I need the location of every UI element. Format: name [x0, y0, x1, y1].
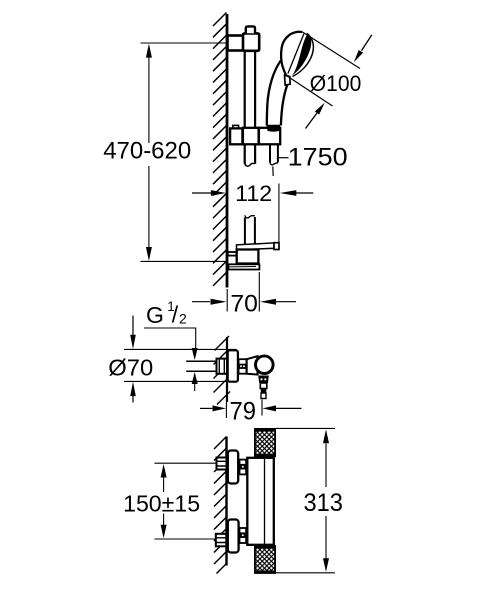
- dim 112 right arrow: [295, 192, 313, 194]
- dim Ø100 upper arrow: [362, 35, 372, 51]
- wall hatching (middle): [214, 336, 231, 405]
- dim 150±15 lower extension line: [155, 538, 216, 540]
- top bracket arm: [228, 36, 244, 51]
- dish arm end cap: [274, 243, 279, 250]
- elbow body: [247, 356, 258, 374]
- svg-text:G: G: [146, 302, 164, 328]
- lower supply hex (behind wall): [216, 534, 227, 547]
- upper union nut: [240, 460, 247, 475]
- slider middle block on rail: [243, 128, 259, 145]
- dim Ø70 lower arrow: [132, 396, 134, 403]
- svg-text:1750: 1750: [288, 143, 348, 171]
- svg-text:2: 2: [179, 310, 187, 326]
- lower bracket wall arm: [228, 252, 237, 256]
- dim Ø100 tangent line A: [303, 32, 361, 69]
- dim 70 left extension line: [226, 289, 228, 312]
- dim 79 left arrow: [200, 407, 212, 409]
- svg-text:313: 313: [303, 489, 343, 517]
- thermostat body: [247, 458, 273, 545]
- dim 150±15 upper extension line: [155, 462, 217, 464]
- rail break (top of lower segment): [245, 215, 255, 218]
- wall hatching (bottom): [214, 437, 227, 574]
- shower head face crescent (dark): [292, 34, 311, 75]
- dim 313 line and arrows: [325, 444, 327, 488]
- svg-text:Ø100: Ø100: [310, 71, 362, 96]
- shower head dome outline: [281, 32, 302, 76]
- svg-text:70: 70: [230, 291, 258, 318]
- dim 470-620 top extension line: [141, 42, 227, 44]
- svg-text:/: /: [172, 302, 179, 328]
- dim Ø70 bottom extension line: [124, 380, 237, 382]
- wall line (middle): [226, 337, 228, 402]
- dim Ø100 tangent line B: [288, 76, 333, 106]
- dim 70 right extension line: [258, 272, 260, 312]
- dim 70 right arrow: [276, 301, 296, 303]
- slider clamp tab: [233, 125, 239, 128]
- lower bracket foot: [228, 264, 259, 269]
- hose centerline stub: [272, 167, 274, 177]
- lower handle (knurled): [255, 546, 275, 573]
- svg-text:150±15: 150±15: [123, 490, 200, 516]
- dim 70 left arrow: [192, 301, 210, 303]
- dim 112 left arrow: [192, 192, 212, 194]
- dim Ø70 upper arrow: [132, 316, 134, 336]
- supply pipe: [186, 361, 216, 371]
- top bracket block: [243, 33, 259, 50]
- slider left clamp: [230, 128, 242, 144]
- union nut (knurled): [239, 359, 247, 374]
- rail tube (upper segment): [245, 51, 255, 164]
- rail tube lower segment: [245, 217, 255, 248]
- dim Ø100 lower arrow: [306, 112, 318, 128]
- dim 79 right arrow: [276, 407, 302, 409]
- body internal line: [264, 458, 266, 545]
- upper supply hex (behind wall): [217, 458, 227, 470]
- dim Ø70 top extension line: [124, 348, 237, 350]
- wall line (top): [226, 14, 229, 288]
- dim 470-620 bottom extension line: [141, 260, 227, 262]
- dim 313 top extension line: [276, 427, 335, 429]
- G1/2 leader line: [144, 328, 196, 349]
- lower escutcheon: [228, 520, 239, 553]
- shower holder (slider right): [259, 128, 280, 145]
- escutcheon (rosette): [228, 350, 238, 381]
- dim 313 bottom extension line: [276, 572, 335, 574]
- lower bracket body: [237, 250, 259, 264]
- outlet nipple: [260, 383, 267, 389]
- hose break: [270, 162, 278, 165]
- dim 79 extension line (outlet center): [261, 400, 263, 416]
- knob on top of bracket: [246, 26, 255, 33]
- G1/2 lower arrow: [192, 372, 198, 384]
- dim line 470-620 with arrows: [148, 56, 150, 249]
- dim 112 extension line (hose end position): [278, 184, 280, 244]
- shower head waist line: [288, 34, 304, 74]
- G1/2 upper arrow: [192, 348, 198, 360]
- leader line 1750: [278, 157, 289, 159]
- swivel ball: [255, 356, 273, 374]
- wall extension below (for 79): [225, 402, 227, 418]
- dark handle-entry shadow in holder: [266, 125, 280, 132]
- wall hatching (top): [213, 13, 227, 286]
- upper handle (knurled): [255, 429, 275, 456]
- outlet knurled cone: [258, 376, 269, 384]
- shower head face outer rim: [293, 33, 314, 76]
- upper escutcheon: [228, 451, 238, 484]
- foot inner line: [228, 266, 256, 268]
- hex nut on pipe: [217, 359, 228, 374]
- hand shower handle outer edge: [267, 61, 281, 126]
- svg-text:Ø70: Ø70: [108, 354, 153, 380]
- pivot tab at head bottom: [285, 75, 291, 85]
- hand shower handle inner edge: [281, 85, 287, 126]
- lower bracket dish arm: [237, 243, 275, 250]
- wall line (bottom): [225, 437, 227, 566]
- dim 150±15 line and arrows: [163, 477, 165, 492]
- lower union nut: [240, 528, 247, 543]
- hose below slider: [270, 145, 278, 163]
- svg-text:79: 79: [230, 398, 257, 426]
- rail break (end of upper segment): [245, 163, 255, 166]
- svg-text:112: 112: [235, 181, 272, 206]
- svg-text:470-620: 470-620: [103, 138, 191, 165]
